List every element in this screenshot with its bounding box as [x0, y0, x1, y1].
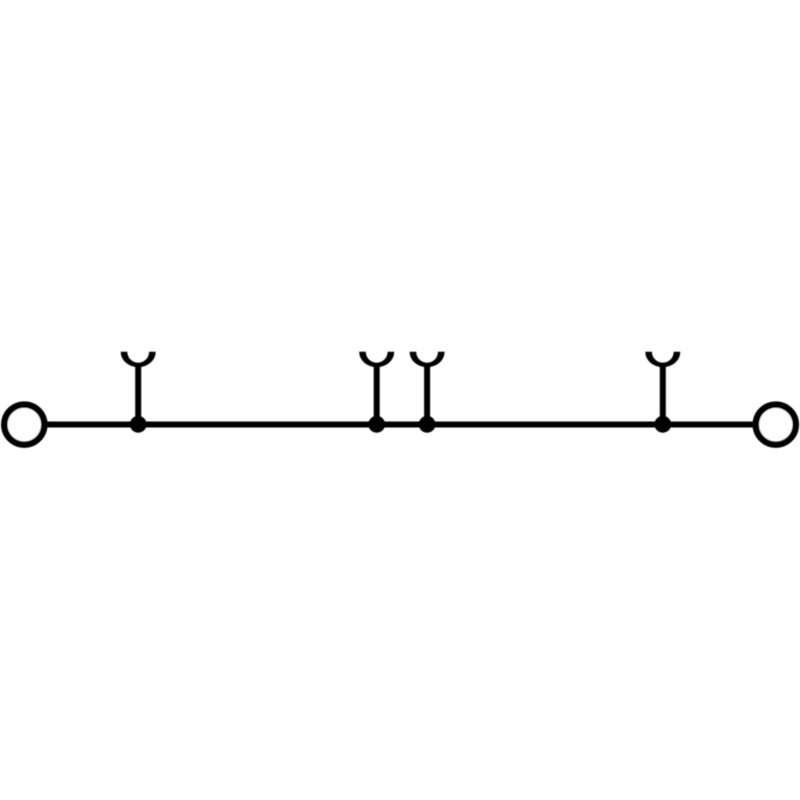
- terminal socket left: [4, 405, 44, 445]
- node junction 2: [368, 416, 385, 433]
- clamp contact 2 stem: [374, 363, 380, 425]
- wire main bus: [30, 422, 770, 428]
- clamp contact 2 cup: [359, 352, 394, 367]
- clamp contact 4 stem: [660, 363, 666, 425]
- node junction 1: [130, 416, 147, 433]
- node junction 4: [654, 416, 671, 433]
- terminal socket right: [756, 405, 796, 445]
- node junction 3: [419, 416, 436, 433]
- clamp contact 4 cup: [645, 352, 680, 367]
- clamp contact 3 stem: [424, 363, 430, 425]
- clamp contact 3 cup: [410, 352, 445, 367]
- clamp contact 1 cup: [121, 352, 156, 367]
- clamp contact 1 stem: [135, 363, 141, 425]
